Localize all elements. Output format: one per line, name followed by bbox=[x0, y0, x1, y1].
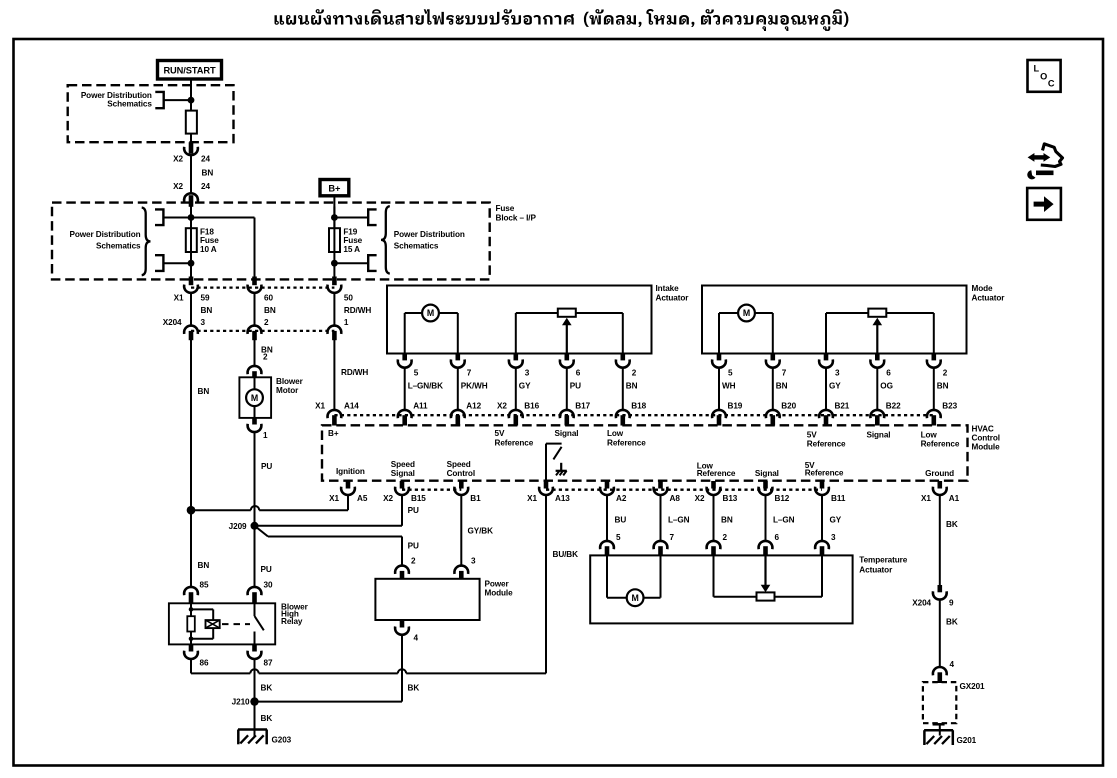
connector power module pin 2 bbox=[395, 566, 409, 580]
svg-text:Signal: Signal bbox=[555, 429, 579, 438]
connector HVAC pin A12 bbox=[451, 402, 482, 426]
mode pot wiper arrow bbox=[873, 318, 883, 354]
wire pin4 to J210 bbox=[255, 701, 403, 703]
svg-text:BU: BU bbox=[615, 516, 627, 525]
svg-text:A5: A5 bbox=[357, 494, 368, 503]
junction dot BN/ignition branch bbox=[187, 506, 196, 515]
svg-text:X1: X1 bbox=[315, 402, 325, 411]
text BN 85 relay coil bbox=[198, 561, 210, 590]
wire J210 to G203 bbox=[255, 702, 273, 737]
svg-text:BK: BK bbox=[261, 683, 273, 692]
text Mode Actuator bbox=[972, 284, 1006, 302]
connector HVAC X1 pin A14 bbox=[315, 402, 359, 426]
svg-text:3: 3 bbox=[525, 369, 530, 378]
wire F19 upper bracket bbox=[334, 217, 368, 219]
blower motor M bbox=[246, 378, 263, 418]
svg-text:2: 2 bbox=[411, 557, 416, 566]
svg-text:G201: G201 bbox=[957, 736, 977, 745]
svg-text:B23: B23 bbox=[942, 402, 957, 411]
relay actuation dashed link bbox=[222, 623, 250, 625]
svg-text:3: 3 bbox=[831, 533, 836, 542]
wire BN fuseblock to X204 bbox=[255, 293, 276, 327]
wire A8 to temperature actuator bbox=[661, 495, 690, 542]
svg-text:4: 4 bbox=[414, 633, 419, 642]
svg-text:HVAC: HVAC bbox=[972, 425, 994, 434]
connector HVAC pin B21 bbox=[819, 402, 850, 426]
brace left (F18) bbox=[142, 208, 151, 276]
connector relay pin 87 bbox=[248, 644, 273, 667]
text Power Distribution Schematics (left) bbox=[70, 230, 142, 250]
text Low Reference (intake) bbox=[607, 429, 646, 447]
svg-text:Reference: Reference bbox=[921, 439, 960, 448]
wire intake M right bbox=[457, 313, 459, 354]
page reference bracket F18 lower bbox=[155, 255, 163, 271]
text Power Distribution Schematics (right) bbox=[394, 230, 465, 250]
svg-text:Schematics: Schematics bbox=[107, 100, 152, 109]
connector X1 pin 59 bbox=[174, 277, 210, 303]
svg-text:2: 2 bbox=[264, 318, 269, 327]
svg-text:B19: B19 bbox=[728, 402, 743, 411]
svg-text:Schematics: Schematics bbox=[96, 242, 141, 251]
page reference bracket (top box) bbox=[155, 92, 163, 108]
svg-text:24: 24 bbox=[201, 154, 210, 163]
svg-text:59: 59 bbox=[201, 293, 210, 302]
connector X204 pin 3 bbox=[163, 318, 206, 340]
svg-text:BN: BN bbox=[198, 561, 210, 570]
text 5V Reference (mode) bbox=[807, 431, 846, 449]
fuse F19 bbox=[329, 228, 340, 252]
page reference bracket F19 lower bbox=[368, 255, 376, 271]
connector HVAC pin B19 bbox=[712, 402, 743, 426]
svg-text:BN: BN bbox=[264, 306, 276, 315]
text GX201 bbox=[960, 682, 986, 691]
text 5V Reference (intake) bbox=[495, 429, 534, 447]
wire to HVAC pin B17 bbox=[566, 368, 568, 410]
title (Thai): wiring diagram HVAC system bbox=[275, 9, 849, 31]
svg-text:PU: PU bbox=[570, 382, 581, 391]
svg-text:J210: J210 bbox=[232, 698, 250, 707]
junction dots F19 bbox=[331, 214, 338, 267]
wire intake M left bbox=[404, 313, 406, 354]
ground G203 bbox=[238, 730, 292, 745]
mode potentiometer bbox=[826, 309, 934, 354]
wire to HVAC pin B18 bbox=[622, 368, 624, 410]
svg-text:3: 3 bbox=[201, 318, 206, 327]
LOC reference box bbox=[1028, 60, 1061, 92]
wire BN main left bbox=[191, 340, 209, 587]
connector HVAC bottom pin B1 bbox=[454, 481, 481, 503]
wire B11 to temperature actuator bbox=[822, 495, 842, 542]
connector row dotted line (X204) bbox=[191, 330, 334, 332]
text Low Reference (mode) bbox=[921, 431, 960, 449]
svg-text:Mode: Mode bbox=[972, 284, 994, 293]
connector HVAC pin B16 bbox=[497, 402, 540, 426]
svg-text:BN: BN bbox=[202, 169, 214, 178]
connector HVAC bottom pin A1 bbox=[921, 481, 960, 503]
svg-text:B11: B11 bbox=[831, 494, 846, 503]
svg-text:6: 6 bbox=[886, 369, 891, 378]
svg-text:1: 1 bbox=[344, 318, 349, 327]
connector HVAC bottom pin B13 bbox=[695, 481, 738, 503]
svg-text:PK/WH: PK/WH bbox=[461, 382, 488, 391]
RUN/START power feed box bbox=[158, 61, 222, 80]
svg-text:BU/BK: BU/BK bbox=[553, 550, 579, 559]
wire fuse to box edge bbox=[190, 134, 192, 143]
wire RD/WH fuseblock to X204 bbox=[334, 293, 371, 327]
svg-text:Reference: Reference bbox=[807, 439, 846, 448]
power module box bbox=[375, 579, 479, 620]
text Signal (intake) bbox=[555, 429, 579, 438]
svg-text:6: 6 bbox=[576, 369, 581, 378]
text Fuse Block - I/P bbox=[496, 204, 537, 223]
svg-text:B18: B18 bbox=[631, 402, 646, 411]
svg-text:1: 1 bbox=[263, 431, 268, 440]
relay coil bbox=[206, 620, 220, 628]
svg-text:Intake: Intake bbox=[656, 284, 680, 293]
svg-text:2: 2 bbox=[723, 533, 728, 542]
svg-text:5V: 5V bbox=[807, 431, 817, 440]
connector HVAC bottom pin A5 bbox=[329, 481, 368, 503]
svg-text:2: 2 bbox=[632, 369, 637, 378]
svg-text:Actuator: Actuator bbox=[972, 293, 1006, 302]
junction J209 bbox=[229, 522, 259, 531]
svg-text:Low: Low bbox=[921, 431, 938, 440]
connector intake actuator pin 2 bbox=[616, 354, 638, 391]
wire B+ down bbox=[333, 196, 335, 229]
svg-text:Reference: Reference bbox=[607, 438, 646, 447]
svg-text:Low: Low bbox=[607, 429, 624, 438]
connector power module pin 4 bbox=[395, 620, 418, 642]
connector intake actuator pin 6 bbox=[560, 354, 581, 391]
fuse (ignition feed, top box) bbox=[186, 111, 197, 134]
wire B12 to temperature actuator bbox=[766, 495, 795, 542]
svg-text:PU: PU bbox=[408, 506, 419, 515]
wire BU/BK A13 down bbox=[546, 495, 578, 674]
wire F18 lower bracket bbox=[163, 262, 191, 264]
svg-text:BK: BK bbox=[946, 618, 958, 627]
ground G201 bbox=[924, 724, 977, 745]
text Blower High Relay bbox=[281, 602, 309, 626]
connector X1 pin 60 bbox=[248, 277, 274, 303]
svg-text:Motor: Motor bbox=[276, 386, 299, 395]
svg-text:Module: Module bbox=[972, 443, 1001, 452]
svg-text:BN: BN bbox=[776, 382, 788, 391]
text Speed Control bbox=[447, 460, 475, 478]
svg-text:WH: WH bbox=[722, 382, 736, 391]
wire branch to pin 60 bbox=[191, 218, 255, 280]
connector relay pin 86 bbox=[184, 644, 209, 667]
svg-text:Speed: Speed bbox=[391, 460, 415, 469]
svg-text:X2: X2 bbox=[383, 494, 393, 503]
svg-text:Power Distribution: Power Distribution bbox=[70, 230, 141, 239]
wire power module pin 4 down bbox=[401, 635, 403, 702]
svg-text:A11: A11 bbox=[413, 402, 428, 411]
connector HVAC bottom pin A2 bbox=[600, 481, 627, 503]
wire BK A1 down bbox=[940, 495, 958, 585]
svg-text:RD/WH: RD/WH bbox=[344, 306, 371, 315]
svg-text:Temperature: Temperature bbox=[859, 556, 907, 565]
svg-text:Ground: Ground bbox=[925, 469, 954, 478]
svg-text:X1: X1 bbox=[174, 293, 184, 302]
intake motor M1 bbox=[405, 305, 458, 322]
HVAC top connector dotted line bbox=[334, 414, 933, 416]
text Power Module bbox=[485, 579, 514, 597]
svg-text:B21: B21 bbox=[835, 402, 850, 411]
connector mode actuator pin 7 bbox=[766, 354, 788, 391]
text Ground (module) bbox=[925, 469, 954, 478]
svg-text:Power Distribution: Power Distribution bbox=[81, 91, 152, 100]
wire branch to HVAC Ignition A5 bbox=[191, 495, 348, 510]
svg-text:3: 3 bbox=[835, 369, 840, 378]
svg-text:L–GN: L–GN bbox=[773, 516, 795, 525]
svg-text:X1: X1 bbox=[329, 494, 339, 503]
svg-text:GY: GY bbox=[830, 516, 842, 525]
svg-text:L–GN/BK: L–GN/BK bbox=[408, 382, 443, 391]
connector HVAC pin B23 bbox=[927, 402, 958, 426]
junction dot ignition feed bbox=[188, 97, 195, 104]
wire to HVAC pin B23 bbox=[933, 368, 935, 410]
connector HVAC bottom pin B11 bbox=[815, 481, 846, 503]
svg-text:Fuse: Fuse bbox=[496, 204, 515, 213]
svg-text:B16: B16 bbox=[524, 402, 539, 411]
svg-text:A14: A14 bbox=[344, 402, 359, 411]
svg-text:B22: B22 bbox=[886, 402, 901, 411]
svg-text:B+: B+ bbox=[328, 429, 339, 438]
temp pot wiper arrow bbox=[761, 555, 771, 592]
brace right (F19) bbox=[381, 206, 390, 274]
connector X204 pin 2 bbox=[248, 318, 269, 340]
text Speed Signal bbox=[391, 460, 415, 478]
connector power module pin 3 bbox=[454, 566, 468, 580]
intake actuator box bbox=[387, 286, 652, 354]
connector HVAC bottom pin A8 bbox=[654, 481, 681, 503]
svg-text:7: 7 bbox=[782, 369, 787, 378]
svg-text:Schematics: Schematics bbox=[394, 242, 439, 251]
intake pot wiper arrow bbox=[562, 318, 572, 354]
fuse F18 bbox=[186, 228, 197, 252]
wire BK X204 to GX201 bbox=[940, 600, 958, 668]
forward arrow box bbox=[1027, 188, 1061, 220]
svg-text:85: 85 bbox=[200, 581, 209, 590]
wire F19 lower bracket bbox=[334, 262, 368, 264]
svg-text:B12: B12 bbox=[775, 494, 790, 503]
svg-text:C: C bbox=[1048, 79, 1055, 89]
svg-text:7: 7 bbox=[467, 369, 472, 378]
wire to HVAC pin B16 bbox=[515, 368, 517, 410]
text Blower Motor bbox=[276, 377, 304, 395]
svg-text:5: 5 bbox=[414, 369, 419, 378]
page reference bracket F18 upper bbox=[155, 209, 163, 225]
blower high relay box bbox=[169, 603, 275, 644]
svg-text:A2: A2 bbox=[616, 494, 627, 503]
wire PU blower to J209 bbox=[255, 432, 273, 526]
B+ power feed box bbox=[320, 180, 349, 196]
svg-text:Control: Control bbox=[972, 434, 1000, 443]
svg-text:2: 2 bbox=[943, 369, 948, 378]
text Ignition bbox=[336, 467, 365, 476]
svg-text:L–GN: L–GN bbox=[668, 516, 690, 525]
svg-text:PU: PU bbox=[261, 462, 272, 471]
connector X2 pin 24 top half bbox=[173, 142, 210, 163]
splice pack GX201 box bbox=[923, 682, 956, 723]
svg-text:Module: Module bbox=[485, 588, 514, 597]
text Power Distribution Schematics (top box) bbox=[81, 91, 153, 109]
svg-text:OG: OG bbox=[880, 382, 893, 391]
svg-text:BK: BK bbox=[946, 520, 958, 529]
connector HVAC pin A11 bbox=[398, 402, 428, 426]
wire to HVAC pin B22 bbox=[876, 368, 878, 410]
text BK (relay 87) bbox=[261, 683, 273, 692]
svg-text:GY: GY bbox=[829, 382, 841, 391]
svg-text:BN: BN bbox=[937, 382, 949, 391]
svg-text:BN: BN bbox=[201, 306, 213, 315]
connector X204 pin 9 bbox=[912, 585, 954, 607]
connector temperature actuator pin 6 bbox=[759, 541, 773, 556]
svg-text:O: O bbox=[1040, 71, 1047, 81]
svg-text:M: M bbox=[743, 308, 750, 318]
connector X2 pin 24 bottom half bbox=[173, 182, 210, 207]
wire GY/BK B1 to power module pin 3 bbox=[461, 495, 493, 567]
page reference bracket F19 upper bbox=[368, 209, 376, 225]
connector row dotted line (X1) bbox=[191, 286, 334, 288]
svg-text:6: 6 bbox=[775, 533, 780, 542]
ground bus 86 to A13 bbox=[191, 669, 546, 673]
mode actuator box bbox=[702, 286, 967, 354]
svg-text:BN: BN bbox=[626, 382, 638, 391]
wire through F19 bbox=[333, 207, 335, 280]
intake potentiometer bbox=[516, 309, 623, 354]
power distribution schematics box (top) bbox=[68, 85, 234, 142]
svg-text:A13: A13 bbox=[555, 494, 570, 503]
svg-text:9: 9 bbox=[949, 598, 954, 607]
svg-text:GX201: GX201 bbox=[960, 682, 986, 691]
connector mode actuator pin 2 bbox=[927, 354, 949, 391]
svg-text:RUN/START: RUN/START bbox=[163, 65, 216, 75]
svg-text:60: 60 bbox=[264, 293, 273, 302]
wire 87 to J210 bbox=[254, 659, 256, 702]
blower motor box bbox=[239, 377, 271, 418]
connector HVAC bottom pin B12 bbox=[759, 481, 790, 503]
svg-text:PU: PU bbox=[408, 542, 419, 551]
mode motor M2 bbox=[719, 305, 773, 322]
text Low Reference (temp) bbox=[697, 462, 736, 479]
svg-text:M: M bbox=[631, 593, 638, 603]
svg-text:B17: B17 bbox=[575, 402, 590, 411]
svg-text:GY/BK: GY/BK bbox=[468, 526, 494, 535]
text Temperature Actuator bbox=[859, 556, 907, 575]
svg-text:50: 50 bbox=[344, 293, 353, 302]
svg-text:Ignition: Ignition bbox=[336, 467, 365, 476]
svg-text:3: 3 bbox=[471, 557, 476, 566]
connector X204 pin 1 bbox=[327, 318, 348, 340]
wire PU J209 to relay 30 bbox=[255, 526, 273, 590]
wire B15 to J209 bbox=[255, 525, 403, 527]
text Signal (mode) bbox=[867, 431, 891, 440]
connector X1 pin 50 bbox=[327, 277, 353, 303]
text BK (power module 4) bbox=[408, 683, 420, 692]
connector blower motor top bbox=[248, 366, 262, 378]
svg-text:86: 86 bbox=[200, 658, 209, 667]
connector blower motor bottom pin 1 bbox=[248, 418, 268, 440]
svg-text:M: M bbox=[251, 393, 258, 403]
svg-text:Signal: Signal bbox=[755, 469, 779, 478]
svg-text:X1: X1 bbox=[527, 494, 537, 503]
svg-text:BK: BK bbox=[261, 714, 273, 723]
text Intake Actuator bbox=[656, 284, 690, 302]
connector HVAC pin B18 bbox=[616, 402, 647, 426]
svg-text:Reference: Reference bbox=[805, 469, 844, 478]
svg-text:J209: J209 bbox=[229, 522, 247, 531]
fuse block I/P box bbox=[52, 203, 490, 280]
svg-text:GY: GY bbox=[519, 382, 531, 391]
HVAC bottom dotted line A13-B11 bbox=[546, 489, 822, 491]
svg-text:X2: X2 bbox=[695, 494, 705, 503]
svg-text:A12: A12 bbox=[466, 402, 481, 411]
connector intake actuator pin 5 bbox=[398, 354, 443, 391]
connector temperature actuator pin 3 bbox=[815, 541, 829, 556]
connector mode actuator pin 5 bbox=[712, 354, 736, 391]
wire to HVAC pin B21 bbox=[825, 368, 827, 410]
svg-text:B20: B20 bbox=[781, 402, 796, 411]
svg-text:X2: X2 bbox=[173, 154, 183, 163]
connector mode actuator pin 3 bbox=[819, 354, 841, 391]
connector intake actuator pin 3 bbox=[509, 354, 531, 391]
svg-text:RD/WH: RD/WH bbox=[341, 368, 368, 377]
connector temperature actuator pin 2 bbox=[707, 541, 721, 556]
wire bracket to ignition feed bbox=[164, 99, 191, 101]
connector temperature actuator pin 7 bbox=[654, 541, 668, 556]
svg-text:Actuator: Actuator bbox=[859, 566, 893, 575]
connector GX201 pin 4 bbox=[933, 660, 955, 683]
svg-text:M: M bbox=[427, 308, 434, 318]
connector HVAC pin B22 bbox=[870, 402, 901, 426]
wire through F18 bbox=[190, 207, 192, 280]
svg-text:30: 30 bbox=[264, 581, 273, 590]
junction dots F18 bbox=[188, 214, 195, 267]
wire RD/WH to A14 bbox=[334, 340, 368, 410]
wire RUN/START down bbox=[190, 79, 192, 112]
svg-text:24: 24 bbox=[201, 182, 210, 191]
temperature actuator box bbox=[590, 555, 852, 623]
svg-text:Signal: Signal bbox=[867, 431, 891, 440]
connector HVAC bottom pin A13 bbox=[527, 481, 570, 503]
wire F18 upper bracket bbox=[163, 217, 191, 219]
svg-text:87: 87 bbox=[264, 658, 273, 667]
text Signal (temp) bbox=[755, 469, 779, 478]
wire B13 to temperature actuator bbox=[714, 495, 733, 542]
connector relay pin 85 bbox=[184, 587, 198, 604]
wire BN fuseblock to X204 bbox=[191, 293, 212, 327]
svg-text:X2: X2 bbox=[497, 402, 507, 411]
svg-text:BN: BN bbox=[198, 387, 210, 396]
svg-text:Power Distribution: Power Distribution bbox=[394, 230, 465, 239]
svg-text:Blower: Blower bbox=[276, 377, 304, 386]
connector mode actuator pin 6 bbox=[870, 354, 892, 391]
svg-text:B15: B15 bbox=[411, 494, 426, 503]
connector relay pin 30 bbox=[248, 587, 262, 604]
wire 86 to ground bus bbox=[190, 659, 192, 674]
svg-text:BN: BN bbox=[721, 516, 733, 525]
relay coil resistor branch bbox=[187, 603, 213, 644]
svg-text:Reference: Reference bbox=[495, 438, 534, 447]
wire PU B15 down bbox=[402, 495, 419, 526]
text 5V Reference (temp) bbox=[805, 461, 844, 478]
text F19 Fuse 15 A bbox=[343, 227, 362, 254]
svg-text:Reference: Reference bbox=[697, 469, 736, 478]
wire to HVAC pin A12 bbox=[457, 368, 459, 410]
svg-text:7: 7 bbox=[670, 533, 675, 542]
wire to HVAC pin A11 bbox=[404, 368, 406, 410]
